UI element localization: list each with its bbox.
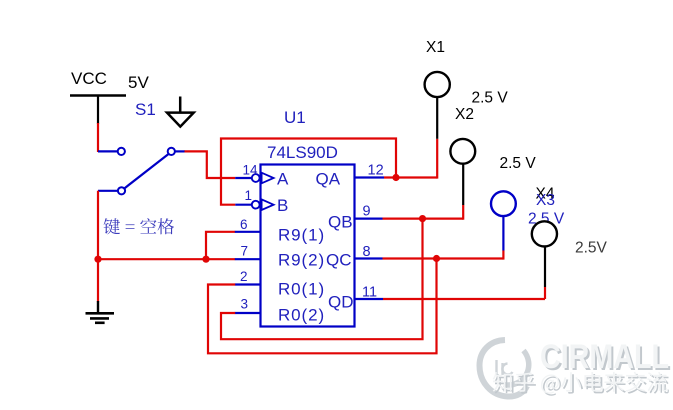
svg-text:7: 7 <box>241 244 249 259</box>
svg-text:QA: QA <box>316 170 341 189</box>
svg-text:9: 9 <box>363 204 371 220</box>
IC labels left column <box>277 170 325 325</box>
svg-text:S1: S1 <box>135 100 156 119</box>
wire R0(1) loop to QC junction <box>208 259 437 354</box>
watermark logo and text placeholder <box>480 338 672 397</box>
wire QB to X2 <box>383 218 464 220</box>
power VCC <box>70 69 126 124</box>
wire switch pole to pin A <box>185 151 236 178</box>
wire X2 lead black <box>462 164 464 206</box>
junction QB loop <box>419 215 426 222</box>
svg-text:X2: X2 <box>455 106 474 123</box>
wire X4 lead red <box>544 287 546 299</box>
switch arrow symbol <box>167 97 194 127</box>
svg-text:X3: X3 <box>536 192 555 209</box>
svg-text:2.5 V: 2.5 V <box>472 90 509 107</box>
probe X4 <box>532 221 557 246</box>
wire QD to X4 <box>383 298 545 300</box>
wire X1 lead black <box>436 97 438 139</box>
svg-text:QC: QC <box>326 251 352 270</box>
wire R0(2) loop to QB junction <box>221 219 423 340</box>
svg-text:2: 2 <box>240 269 248 284</box>
svg-text:14: 14 <box>243 163 259 178</box>
wire QA to X1 <box>384 176 437 178</box>
wire X4 lead black <box>544 246 546 287</box>
pin 2 stub <box>235 283 261 285</box>
pin 7 stub <box>235 258 261 260</box>
svg-text:74LS90D: 74LS90D <box>267 143 338 162</box>
svg-text:A: A <box>277 170 289 189</box>
svg-text:6: 6 <box>240 217 248 232</box>
probe X1 <box>425 72 450 97</box>
junction ground-vertical <box>94 256 101 263</box>
wire ground net vertical <box>97 191 99 302</box>
svg-text:11: 11 <box>362 285 377 301</box>
switch S1 <box>98 148 185 195</box>
svg-text:3: 3 <box>241 297 249 312</box>
watermark CIRMALL <box>540 338 671 378</box>
wire red pin B from loop <box>221 139 396 205</box>
wire VCC to switch top contact <box>97 123 99 152</box>
pin 12 stub <box>355 176 385 178</box>
svg-text:R0(1): R0(1) <box>278 280 325 299</box>
probe X2 <box>450 139 475 164</box>
svg-text:12: 12 <box>368 163 384 179</box>
junction QC loop <box>433 255 440 262</box>
svg-text:R9(2): R9(2) <box>278 251 325 270</box>
svg-text:X1: X1 <box>426 39 445 56</box>
svg-text:R0(2): R0(2) <box>278 306 325 325</box>
svg-text:B: B <box>277 196 289 215</box>
junction pin6 branch <box>202 256 209 263</box>
pin 8 stub <box>355 257 383 259</box>
svg-text:2.5V: 2.5V <box>575 240 608 257</box>
pin 6 stub <box>235 231 261 233</box>
probe X3 <box>491 191 516 216</box>
ground <box>86 301 115 323</box>
IC U1 74LS90D body <box>261 165 355 327</box>
svg-text:VCC: VCC <box>71 69 107 88</box>
svg-text:8: 8 <box>363 244 371 260</box>
pin 3 stub <box>235 312 261 314</box>
label key = space (键 = 空格) <box>104 218 175 234</box>
svg-text:U1: U1 <box>284 108 306 127</box>
pin A clock bubble and triangle <box>235 173 273 184</box>
svg-text:2.5 V: 2.5 V <box>500 155 537 172</box>
pin B clock bubble and triangle <box>235 199 273 210</box>
svg-text:R9(1): R9(1) <box>278 226 325 245</box>
watermark zhihu handle <box>493 372 669 396</box>
wire ground net horizontal to pin 7 <box>98 258 235 260</box>
wire X3 lead blue <box>502 216 504 251</box>
pin 11 stub <box>355 298 384 300</box>
svg-text:CIRMALL: CIRMALL <box>540 338 669 376</box>
wire X2 lead red <box>462 205 464 220</box>
wire X1 lead red <box>436 139 438 179</box>
wire branch to pin 6 <box>206 232 235 259</box>
watermark logo <box>480 340 529 397</box>
IC labels right column <box>316 170 354 312</box>
pin 9 stub <box>355 218 383 220</box>
wire X3 lead red <box>502 251 504 260</box>
wire QC to X3 <box>383 257 504 259</box>
svg-text:QD: QD <box>328 293 354 312</box>
svg-text:QB: QB <box>328 213 353 232</box>
junction QA loop <box>392 174 399 181</box>
svg-text:5V: 5V <box>128 73 149 92</box>
svg-text:1: 1 <box>245 188 253 203</box>
